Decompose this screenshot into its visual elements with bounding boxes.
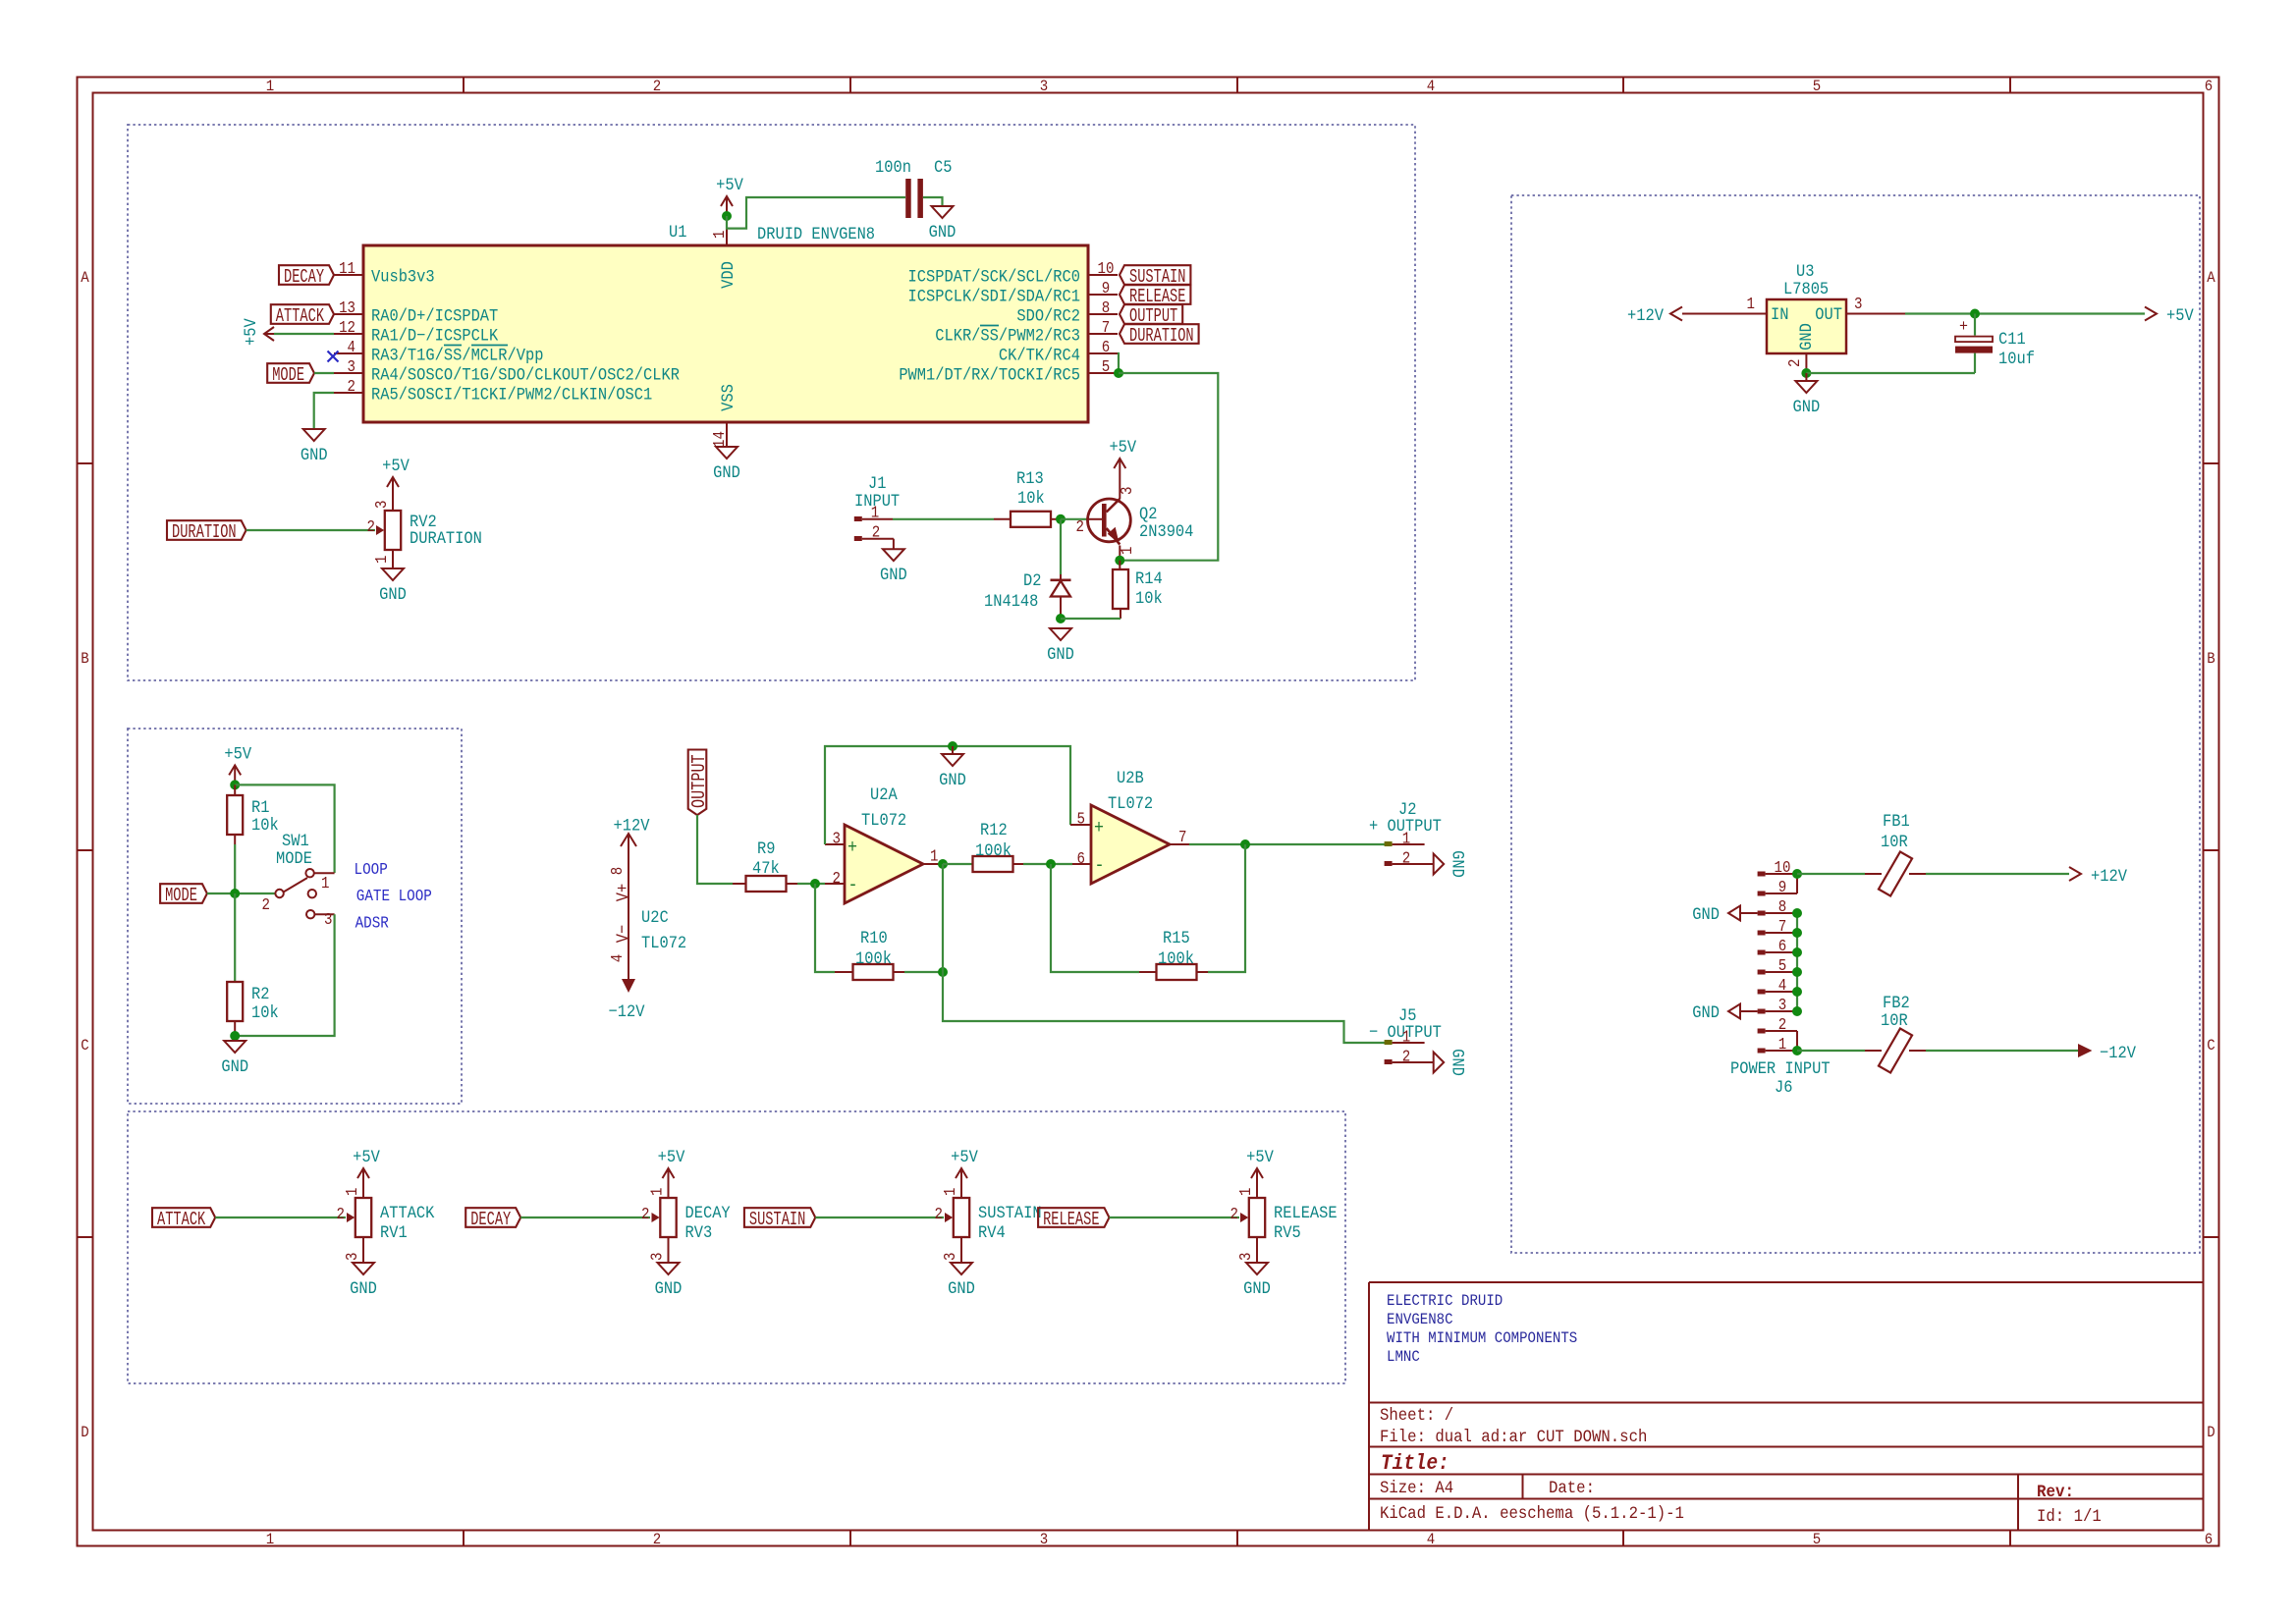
GND right of J2 pin2 xyxy=(1426,863,1434,865)
svg-text:1: 1 xyxy=(941,1188,960,1196)
svg-text:LOOP: LOOP xyxy=(355,860,388,879)
svg-text:U1: U1 xyxy=(669,222,687,242)
wire pin12 to +5V xyxy=(274,333,334,335)
svg-text:7: 7 xyxy=(1778,917,1786,937)
svg-text:R9: R9 xyxy=(757,839,775,858)
svg-text:Title:: Title: xyxy=(1381,1452,1449,1476)
svg-text:DECAY: DECAY xyxy=(470,1209,511,1230)
svg-text:+5V: +5V xyxy=(353,1147,380,1166)
svg-text:A: A xyxy=(2207,268,2215,287)
wire R10 to junction xyxy=(904,971,943,973)
svg-text:+: + xyxy=(1094,818,1104,839)
IC U1 body xyxy=(363,245,1088,422)
svg-text:1: 1 xyxy=(930,846,938,866)
wire ATTACK to RV1 xyxy=(215,1217,346,1218)
wire R15 to U2B out xyxy=(1208,844,1245,972)
svg-text:DECAY: DECAY xyxy=(685,1203,731,1222)
svg-text:3: 3 xyxy=(833,829,841,848)
svg-text:J6: J6 xyxy=(1775,1077,1792,1097)
svg-text:D: D xyxy=(81,1423,88,1441)
junction U2A out xyxy=(938,859,948,869)
RV2 pin 3 to +5V xyxy=(392,497,394,511)
svg-text:GND: GND xyxy=(1047,644,1074,664)
title block xyxy=(1369,1281,2204,1283)
svg-text:47k: 47k xyxy=(752,858,780,878)
wire MODE to pin 3 xyxy=(314,372,334,374)
op-amp U2A xyxy=(845,825,923,903)
svg-text:TL072: TL072 xyxy=(1108,793,1153,813)
Q2 collector to +5V xyxy=(1119,478,1121,499)
svg-text:GND: GND xyxy=(1448,1049,1467,1076)
svg-text:6: 6 xyxy=(1778,937,1786,956)
svg-text:1: 1 xyxy=(321,874,329,893)
U2A pin3 stub xyxy=(825,843,845,845)
svg-text:D2: D2 xyxy=(1023,570,1041,590)
svg-text:1: 1 xyxy=(1118,547,1137,555)
svg-text:SUSTAIN: SUSTAIN xyxy=(978,1203,1042,1222)
J1 pin2 to GND xyxy=(893,539,895,550)
J6 pin 9 xyxy=(1758,892,1766,896)
svg-text:Rev:: Rev: xyxy=(2037,1483,2074,1502)
J6 pin 3 xyxy=(1758,1009,1766,1014)
no-connect X at pin 4 xyxy=(328,352,339,362)
global label OUTPUT (U1) xyxy=(1120,304,1182,324)
svg-text:ATTACK: ATTACK xyxy=(276,305,324,327)
svg-text:+12V: +12V xyxy=(614,816,650,836)
global label RELEASE xyxy=(1120,285,1190,304)
wire junction to Q2 base xyxy=(1061,518,1087,520)
global label MODE (SW1) xyxy=(160,884,207,903)
junction D2/R14 gnd net xyxy=(1056,614,1066,623)
svg-text:C5: C5 xyxy=(934,157,952,177)
svg-text:5: 5 xyxy=(1102,357,1110,377)
wire FB1 to +12V xyxy=(1926,873,2069,875)
wire OUTPUT down to R9 xyxy=(697,815,733,884)
section box C (pots) xyxy=(128,1111,1345,1383)
svg-text:3: 3 xyxy=(1854,295,1862,314)
svg-text:GND: GND xyxy=(948,1278,975,1298)
svg-text:ATTACK: ATTACK xyxy=(157,1209,205,1230)
svg-text:SDO/RC2: SDO/RC2 xyxy=(1016,306,1080,326)
svg-text:RA4/SOSCO/T1G/SDO/CLKOUT/OSC2/: RA4/SOSCO/T1G/SDO/CLKOUT/OSC2/CLKR xyxy=(371,365,680,385)
J6 pin 6 xyxy=(1758,950,1766,955)
U1 overbars (SS, MCLR on RA3 pin) xyxy=(444,345,462,347)
potentiometer RV1 xyxy=(355,1198,371,1237)
svg-text:C: C xyxy=(2207,1036,2214,1055)
svg-text:ICSPDAT/SCK/SCL/RC0: ICSPDAT/SCK/SCL/RC0 xyxy=(908,267,1080,287)
wire VDD to C5 xyxy=(727,197,905,229)
svg-text:−12V: −12V xyxy=(2100,1043,2136,1062)
global label OUTPUT (vertical) xyxy=(688,750,707,816)
svg-text:2: 2 xyxy=(1402,848,1410,868)
resistor R9 xyxy=(733,883,745,885)
svg-text:V+: V+ xyxy=(613,884,632,901)
svg-text:File: dual ad:ar CUT DOWN.sch: File: dual ad:ar CUT DOWN.sch xyxy=(1380,1428,1647,1447)
svg-text:GND: GND xyxy=(1692,1002,1720,1022)
svg-text:5: 5 xyxy=(1778,956,1786,976)
svg-text:+: + xyxy=(1959,317,1968,336)
svg-text:DECAY: DECAY xyxy=(284,266,324,288)
U3 GND pin down xyxy=(1805,353,1807,373)
section box D (power) xyxy=(1511,195,2200,1253)
svg-text:4: 4 xyxy=(1427,1530,1435,1548)
svg-text:GND: GND xyxy=(221,1056,248,1076)
svg-text:DURATION: DURATION xyxy=(410,528,482,548)
svg-text:3: 3 xyxy=(343,1253,362,1261)
svg-text:SUSTAIN: SUSTAIN xyxy=(749,1209,805,1230)
svg-text:2: 2 xyxy=(653,77,661,95)
svg-text:1: 1 xyxy=(647,1188,667,1196)
junction R2 bottom xyxy=(230,1031,240,1041)
svg-text:L7805: L7805 xyxy=(1783,279,1829,298)
svg-text:+5V: +5V xyxy=(241,318,260,346)
svg-text:U2A: U2A xyxy=(870,784,898,804)
J6 pin 4 xyxy=(1758,990,1766,995)
potentiometer RV2 xyxy=(385,511,401,550)
svg-text:RV1: RV1 xyxy=(380,1222,408,1242)
svg-text:RA1/D−/ICSPCLK: RA1/D−/ICSPCLK xyxy=(371,326,498,346)
wire R12 to U2B pin6 xyxy=(1023,863,1072,865)
svg-text:10R: 10R xyxy=(1881,832,1908,851)
U1 VDD pin (1) xyxy=(726,216,728,245)
junction gnd rail xyxy=(948,741,957,751)
potentiometer RV5 xyxy=(1249,1198,1265,1237)
wire pin6 down to pin5 xyxy=(1118,353,1119,373)
svg-text:WITH MINIMUM COMPONENTS: WITH MINIMUM COMPONENTS xyxy=(1387,1328,1577,1347)
junction at VDD xyxy=(722,211,732,221)
svg-text:2: 2 xyxy=(367,517,375,537)
svg-text:KiCad E.D.A. eeschema (5.1.2-: KiCad E.D.A. eeschema (5.1.2-1)-1 xyxy=(1380,1504,1684,1524)
J6 pin 5 xyxy=(1758,970,1766,975)
U2A pin2 stub xyxy=(825,883,845,885)
resistor R1 xyxy=(234,784,236,795)
U3 OUT wire to +5V xyxy=(1846,313,1905,315)
svg-text:2: 2 xyxy=(1230,1205,1238,1224)
wire C11 to gnd junction xyxy=(1806,372,1975,374)
SW1 pin3 wire down xyxy=(314,913,334,915)
junction R1 top xyxy=(230,780,240,789)
svg-text:3: 3 xyxy=(941,1253,960,1261)
svg-text:U2C: U2C xyxy=(641,907,669,927)
svg-text:2: 2 xyxy=(872,522,880,542)
svg-text:3: 3 xyxy=(348,357,355,377)
svg-text:+5V: +5V xyxy=(951,1147,978,1166)
wire SUSTAIN to RV4 xyxy=(815,1217,944,1218)
svg-text:R14: R14 xyxy=(1135,568,1163,588)
junction at C11 xyxy=(1970,309,1980,319)
svg-text:R13: R13 xyxy=(1016,468,1044,488)
svg-text:LMNC: LMNC xyxy=(1387,1347,1420,1366)
svg-text:2N3904: 2N3904 xyxy=(1139,521,1194,541)
wire DECAY to RV3 xyxy=(520,1217,650,1218)
wire FB2 to -12V xyxy=(1926,1050,2078,1052)
svg-text:5: 5 xyxy=(1813,1530,1821,1548)
svg-text:4: 4 xyxy=(1778,976,1786,996)
svg-text:TL072: TL072 xyxy=(641,933,686,952)
GND at C5 xyxy=(932,206,954,218)
+5V above R1 xyxy=(234,765,236,784)
wire C5 to GND xyxy=(923,197,943,206)
section box A (MCU) xyxy=(128,125,1415,680)
switch SW1 xyxy=(275,890,283,897)
U2B pin6 stub xyxy=(1072,863,1091,865)
svg-text:GND: GND xyxy=(1796,323,1816,351)
J6 pin 8 xyxy=(1758,911,1766,916)
svg-text:+5V: +5V xyxy=(658,1147,685,1166)
GND below D2 xyxy=(1050,628,1071,640)
svg-text:4: 4 xyxy=(608,954,628,962)
svg-text:Sheet: /: Sheet: / xyxy=(1380,1406,1453,1426)
svg-text:RV3: RV3 xyxy=(685,1222,713,1242)
svg-text:ELECTRIC DRUID: ELECTRIC DRUID xyxy=(1387,1291,1503,1310)
svg-text:7: 7 xyxy=(1102,318,1110,338)
svg-text:VSS: VSS xyxy=(718,384,738,411)
svg-text:2: 2 xyxy=(262,895,270,915)
svg-text:D: D xyxy=(2207,1423,2214,1441)
svg-text:2: 2 xyxy=(1785,359,1805,367)
svg-text:MODE: MODE xyxy=(272,364,304,386)
svg-text:1: 1 xyxy=(266,77,274,95)
svg-text:DURATION: DURATION xyxy=(1129,325,1194,347)
junction U2B out xyxy=(1240,839,1250,849)
svg-text:R10: R10 xyxy=(860,928,888,947)
wire U2A out down xyxy=(942,864,944,972)
svg-text:Vusb3v3: Vusb3v3 xyxy=(371,267,435,287)
svg-text:ENVGEN8C: ENVGEN8C xyxy=(1387,1310,1453,1328)
global label RELEASE (RV5) xyxy=(1038,1208,1109,1227)
global label ATTACK (RV1) xyxy=(152,1208,215,1227)
wire +5V to SW1 pin1 xyxy=(235,784,334,873)
global label DURATION (RV2) xyxy=(167,520,246,540)
svg-text:C11: C11 xyxy=(1998,329,2026,349)
svg-text:8: 8 xyxy=(608,867,628,875)
GND at U1 VSS xyxy=(716,447,738,459)
svg-text:ADSR: ADSR xyxy=(355,913,390,932)
svg-text:OUTPUT: OUTPUT xyxy=(690,754,711,808)
svg-text:GND: GND xyxy=(880,565,907,584)
junction pin5 xyxy=(1114,368,1123,378)
svg-text:3: 3 xyxy=(647,1253,667,1261)
svg-text:R12: R12 xyxy=(980,820,1008,839)
svg-text:3: 3 xyxy=(1236,1253,1256,1261)
svg-text:OUT: OUT xyxy=(1815,304,1842,324)
potentiometer RV3 xyxy=(660,1198,676,1237)
J6 pin9 tie to pin10 xyxy=(1796,874,1798,893)
svg-text:ICSPCLK/SDI/SDA/RC1: ICSPCLK/SDI/SDA/RC1 xyxy=(908,287,1081,306)
svg-text:1: 1 xyxy=(871,503,879,522)
U1 right pin stubs + numbers xyxy=(1088,274,1118,276)
wire R9 to U2A xyxy=(797,883,825,885)
junction U3 gnd xyxy=(1801,368,1811,378)
diode D2 xyxy=(1060,519,1062,574)
junction R9 out xyxy=(810,879,820,889)
U2B output pin 7 xyxy=(1170,843,1189,845)
svg-text:2: 2 xyxy=(1076,517,1084,537)
svg-text:10uf: 10uf xyxy=(1998,349,2035,368)
global label ATTACK xyxy=(271,304,334,324)
svg-text:6: 6 xyxy=(2205,1530,2213,1548)
svg-text:+5V: +5V xyxy=(2166,305,2194,325)
ferrite bead FB2 xyxy=(1797,1050,1865,1052)
GND below U3 xyxy=(1805,373,1807,381)
resistor R14 xyxy=(1119,561,1121,569)
svg-text:RV5: RV5 xyxy=(1274,1222,1301,1242)
svg-text:3: 3 xyxy=(1778,996,1786,1015)
svg-text:RA3/T1G/SS/MCLR/Vpp: RA3/T1G/SS/MCLR/Vpp xyxy=(371,346,543,365)
potentiometer RV4 xyxy=(954,1198,969,1237)
capacitor C5 xyxy=(905,179,911,218)
svg-text:7: 7 xyxy=(1178,828,1186,847)
svg-text:4: 4 xyxy=(1427,77,1435,95)
svg-text:GND: GND xyxy=(655,1278,683,1298)
svg-text:C: C xyxy=(81,1036,88,1055)
svg-text:−12V: −12V xyxy=(609,1001,645,1021)
svg-text:+5V: +5V xyxy=(1246,1147,1274,1166)
svg-text:10: 10 xyxy=(1098,259,1115,279)
svg-text:8: 8 xyxy=(1778,897,1786,917)
junction MODE node xyxy=(230,889,240,898)
svg-text:RELEASE: RELEASE xyxy=(1274,1203,1338,1222)
RV2 pin 1 to GND xyxy=(392,550,394,568)
svg-text:+5V: +5V xyxy=(1109,437,1136,457)
svg-text:1: 1 xyxy=(266,1530,274,1548)
svg-text:-: - xyxy=(1095,856,1105,877)
svg-text:1: 1 xyxy=(1236,1188,1256,1196)
svg-text:R2: R2 xyxy=(251,984,269,1003)
GND arrow at J6 pin8 xyxy=(1740,912,1758,914)
svg-text:9: 9 xyxy=(1102,279,1110,298)
svg-text:CLKR/SS/PWM2/RC3: CLKR/SS/PWM2/RC3 xyxy=(935,326,1080,346)
svg-text:3: 3 xyxy=(372,501,392,509)
svg-text:VDD: VDD xyxy=(718,261,738,289)
global label DECAY xyxy=(279,265,334,285)
svg-text:GND: GND xyxy=(1692,904,1720,924)
svg-text:RA0/D+/ICSPDAT: RA0/D+/ICSPDAT xyxy=(371,306,498,326)
svg-text:100k: 100k xyxy=(975,840,1011,860)
svg-text:DRUID ENVGEN8: DRUID ENVGEN8 xyxy=(757,224,875,243)
svg-text:ATTACK: ATTACK xyxy=(380,1203,435,1222)
GND of opamp rail xyxy=(952,746,954,754)
wire J1 to R13 xyxy=(893,518,994,520)
svg-text:8: 8 xyxy=(1102,298,1110,318)
svg-text:100k: 100k xyxy=(1158,948,1194,968)
svg-text:9: 9 xyxy=(1778,878,1786,897)
svg-text:6: 6 xyxy=(2205,77,2213,95)
wire MODE to junction xyxy=(207,893,275,894)
global label DURATION (U1) xyxy=(1120,324,1199,344)
svg-text:RA5/SOSCI/T1CKI/PWM2/CLKIN/OSC: RA5/SOSCI/T1CKI/PWM2/CLKIN/OSC1 xyxy=(371,385,652,405)
U2B pin5 stub xyxy=(1070,824,1091,826)
op-amp U2B xyxy=(1091,805,1170,884)
svg-text:5: 5 xyxy=(1077,809,1085,829)
svg-text:10: 10 xyxy=(1775,858,1791,878)
svg-text:2: 2 xyxy=(641,1205,649,1224)
svg-text:2: 2 xyxy=(1778,1015,1786,1035)
svg-text:10k: 10k xyxy=(251,815,279,835)
ferrite bead FB1 xyxy=(1797,873,1865,875)
svg-text:GND: GND xyxy=(939,770,966,789)
wire DURATION to RV2 wiper xyxy=(246,529,375,531)
+12V arrow to U3 IN xyxy=(1682,313,1767,315)
svg-text:GND: GND xyxy=(929,222,957,242)
svg-text:4: 4 xyxy=(348,338,355,357)
J6 pin2 tie to pin1 xyxy=(1796,1031,1798,1051)
svg-text:CK/TK/RC4: CK/TK/RC4 xyxy=(999,346,1080,365)
SW1 pin1 wire xyxy=(314,872,335,874)
junction R12 out xyxy=(1046,859,1056,869)
svg-text:2: 2 xyxy=(935,1205,943,1224)
resistor R10 xyxy=(815,884,835,972)
svg-text:10k: 10k xyxy=(1135,588,1163,608)
+5V arrow at pin 12 xyxy=(264,333,274,335)
svg-text:1: 1 xyxy=(1402,1027,1410,1047)
wire pin2 to GND xyxy=(314,393,334,429)
GND at U1 pin 2 xyxy=(303,429,325,441)
U2A output pin 1 xyxy=(923,863,943,865)
svg-text:2: 2 xyxy=(348,377,355,397)
wire U2B out to J2 xyxy=(1189,843,1385,845)
svg-text:DURATION: DURATION xyxy=(172,521,237,543)
svg-text:MODE: MODE xyxy=(165,885,197,906)
svg-text:PWM1/DT/RX/TOCKI/RC5: PWM1/DT/RX/TOCKI/RC5 xyxy=(899,365,1080,385)
svg-text:3: 3 xyxy=(1040,77,1048,95)
svg-text:Id: 1/1: Id: 1/1 xyxy=(2037,1507,2102,1527)
svg-text:3: 3 xyxy=(324,910,332,930)
svg-text:1: 1 xyxy=(343,1188,362,1196)
svg-text:GND: GND xyxy=(350,1278,377,1298)
capacitor C11 xyxy=(1974,314,1976,336)
svg-text:+5V: +5V xyxy=(382,456,410,475)
svg-text:GND: GND xyxy=(301,445,328,464)
junction emitter xyxy=(1115,556,1124,566)
regulator U3 body xyxy=(1767,299,1846,353)
svg-text:12: 12 xyxy=(339,318,355,338)
svg-text:TL072: TL072 xyxy=(861,810,906,830)
wire pin5 to Q2 emitter net xyxy=(1119,373,1218,561)
+5V at U1 VDD xyxy=(726,196,728,216)
svg-text:GND: GND xyxy=(1448,850,1467,878)
svg-text:10k: 10k xyxy=(251,1002,279,1022)
junction R13/D2/Q2 xyxy=(1056,514,1066,524)
svg-text:MODE: MODE xyxy=(276,848,312,868)
global label SUSTAIN (RV4) xyxy=(744,1208,815,1227)
wire D2 to R14 bottom xyxy=(1061,618,1121,620)
svg-text:5: 5 xyxy=(1813,77,1821,95)
svg-text:6: 6 xyxy=(1102,338,1110,357)
svg-text:GND: GND xyxy=(1243,1278,1271,1298)
svg-text:10R: 10R xyxy=(1881,1010,1908,1030)
junction R10 out xyxy=(938,967,948,977)
svg-text:14: 14 xyxy=(710,431,730,448)
J6 pin 1 xyxy=(1758,1049,1766,1054)
svg-text:GATE LOOP: GATE LOOP xyxy=(356,887,432,905)
GND arrow at J6 pin3 xyxy=(1740,1010,1758,1012)
section box B (mode switch) xyxy=(128,729,462,1104)
svg-text:1: 1 xyxy=(710,231,730,239)
svg-text:B: B xyxy=(2207,649,2214,668)
svg-text:U2B: U2B xyxy=(1117,768,1144,787)
svg-text:+12V: +12V xyxy=(2091,866,2127,886)
svg-text:V−: V− xyxy=(613,925,632,943)
J6 pin 7 xyxy=(1758,931,1766,936)
svg-text:+12V: +12V xyxy=(1627,305,1664,325)
svg-text:RV4: RV4 xyxy=(978,1222,1006,1242)
GND below R2 xyxy=(224,1041,246,1053)
GND right of J5 pin2 xyxy=(1426,1061,1434,1063)
svg-text:-: - xyxy=(848,876,858,896)
resistor R12 xyxy=(943,863,973,865)
wire RELEASE to RV5 xyxy=(1110,1217,1240,1218)
